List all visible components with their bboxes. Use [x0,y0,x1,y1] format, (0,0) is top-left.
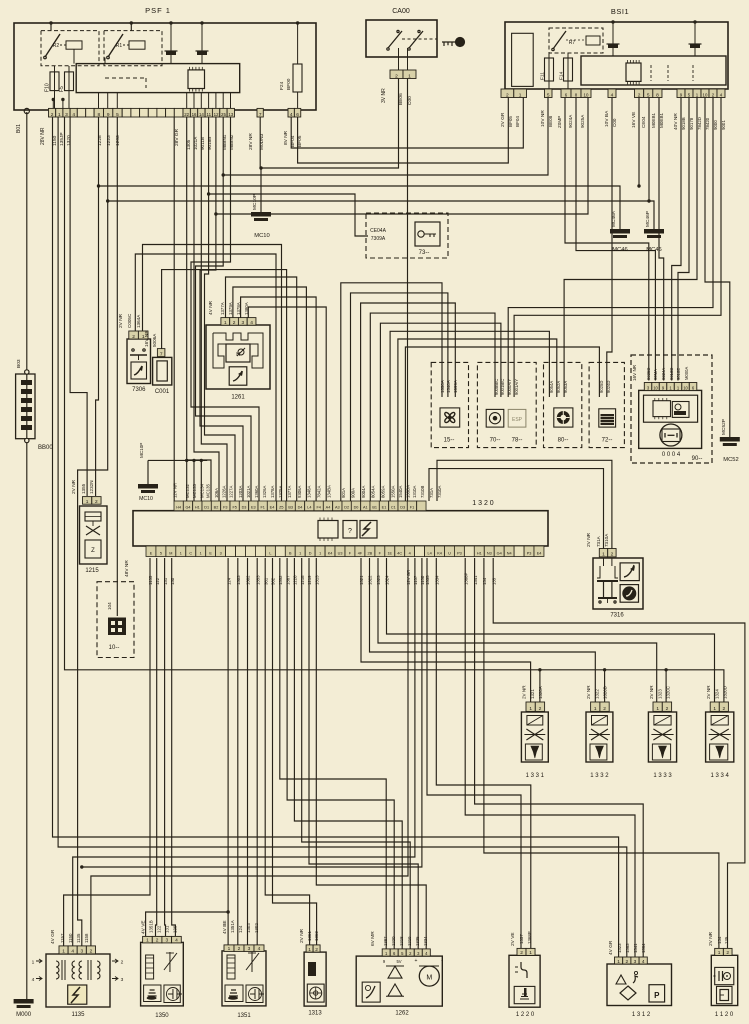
svg-text:D3: D3 [242,506,247,510]
svg-text:9001A/Y: 9001A/Y [514,379,519,395]
svg-text:1322: 1322 [594,689,599,699]
svg-text:1364A: 1364A [136,314,141,328]
svg-text:1368P: 1368P [527,931,532,944]
svg-text:12: 12 [214,112,219,117]
svg-text:134: 134 [482,577,487,585]
svg-text:1355: 1355 [81,483,86,494]
svg-text:2V VE: 2V VE [510,932,516,946]
svg-text:M000: M000 [16,1012,32,1018]
svg-text:1218: 1218 [300,575,305,585]
svg-text:73--: 73-- [419,250,430,256]
svg-text:MC132: MC132 [185,484,190,498]
svg-text:122: 122 [157,925,162,933]
svg-text:ESP: ESP [512,417,523,423]
svg-text:M0DN3: M0DN3 [259,133,265,150]
svg-text:11: 11 [206,112,211,117]
svg-text:1203A: 1203A [238,485,243,498]
svg-text:1550A: 1550A [390,485,395,498]
svg-text:78--: 78-- [512,438,523,444]
svg-text:1361: 1361 [307,931,312,941]
svg-text:901A: 901A [341,488,346,498]
svg-text:P: P [654,991,660,1000]
svg-text:1380A: 1380A [244,302,249,315]
svg-text:N4: N4 [507,552,512,556]
svg-text:9306A: 9306A [297,485,302,498]
svg-text:3: 3 [248,946,251,952]
svg-text:U3: U3 [338,552,343,556]
svg-text:2: 2 [90,949,93,955]
svg-text:2V NR: 2V NR [708,931,714,946]
svg-text:1364: 1364 [641,943,646,953]
svg-text:1335: 1335 [425,575,430,585]
svg-text:7306: 7306 [132,387,146,393]
svg-text:1348A: 1348A [307,485,312,498]
svg-text:1: 1 [519,92,522,98]
svg-text:28V NR: 28V NR [40,127,46,145]
svg-text:9024D: 9024D [606,381,611,393]
svg-text:1: 1 [86,499,89,505]
svg-text:1334: 1334 [423,936,428,946]
svg-text:BSI1: BSI1 [611,7,629,16]
svg-text:1: 1 [62,949,65,955]
svg-text:1220: 1220 [391,936,396,946]
svg-text:MC52P: MC52P [721,419,727,435]
svg-text:C001: C001 [155,389,170,395]
svg-text:2: 2 [603,706,606,712]
svg-text:5006A: 5006A [152,333,157,347]
svg-text:C00: C00 [407,96,413,105]
svg-text:3: 3 [634,959,637,965]
svg-text:1223: 1223 [106,135,112,146]
svg-text:1326A: 1326A [262,485,267,498]
svg-text:2: 2 [233,320,236,326]
svg-text:2: 2 [520,950,523,956]
svg-text:9024A: 9024A [661,368,666,380]
svg-text:4: 4 [611,92,614,98]
svg-text:MC46: MC46 [646,247,661,253]
svg-text:135: 135 [491,577,496,585]
svg-text:16V NR: 16V NR [632,364,637,381]
svg-text:1: 1 [308,947,311,953]
svg-text:1219: 1219 [407,936,412,946]
svg-text:1324: 1324 [715,689,720,699]
svg-text:H4: H4 [176,506,181,510]
svg-text:70--: 70-- [490,438,501,444]
svg-text:10V BA: 10V BA [604,110,610,127]
svg-text:2V NR: 2V NR [586,532,592,547]
svg-text:1313: 1313 [308,1011,322,1017]
svg-text:4F: 4F [358,552,363,556]
svg-text:10V NR: 10V NR [540,110,546,127]
svg-text:9000A/Y: 9000A/Y [507,379,512,395]
svg-text:2: 2 [611,552,614,558]
svg-text:E1: E1 [382,506,387,510]
svg-text:BB00: BB00 [38,445,53,451]
svg-text:1323: 1323 [658,689,663,699]
svg-text:1 1 2 0: 1 1 2 0 [715,1012,734,1018]
svg-text:2: 2 [625,959,628,965]
svg-text:1320: 1320 [66,135,72,146]
svg-text:P3: P3 [527,552,532,556]
svg-text:MC46A: MC46A [611,210,617,227]
svg-text:5: 5 [547,92,550,98]
svg-text:900A: 900A [351,488,356,498]
svg-text:1320D: 1320D [723,686,728,699]
svg-text:PSF 1: PSF 1 [145,6,171,15]
svg-text:MC10: MC10 [139,496,153,502]
svg-text:1157: 1157 [413,575,418,585]
svg-text:1 3 1 2: 1 3 1 2 [632,1012,651,1018]
svg-text:2V NR: 2V NR [706,685,711,699]
svg-text:25: 25 [221,112,226,117]
svg-text:1135: 1135 [148,575,153,585]
svg-text:?: ? [348,528,352,535]
svg-text:9024A: 9024A [568,114,573,128]
svg-text:1599A: 1599A [453,380,458,393]
svg-text:Z: Z [91,548,95,554]
svg-text:6: 6 [296,112,299,118]
svg-text:1303: 1303 [246,923,251,933]
svg-text:1362: 1362 [314,931,319,941]
svg-text:2V NR: 2V NR [649,685,654,699]
svg-text:3: 3 [241,320,244,326]
svg-text:1305: 1305 [186,139,191,150]
svg-text:1321: 1321 [359,575,364,585]
svg-text:1320A: 1320A [538,686,543,699]
svg-text:M000A: M000A [684,367,689,380]
svg-text:1 2 2 0: 1 2 2 0 [516,1012,535,1018]
svg-text:5: 5 [647,92,650,98]
svg-text:C005C: C005C [127,313,132,328]
svg-text:10: 10 [653,385,658,390]
svg-text:1157: 1157 [60,933,65,943]
svg-text:R7: R7 [569,40,576,46]
svg-text:9000: 9000 [713,120,718,130]
svg-text:2: 2 [132,334,135,340]
svg-text:MC46: MC46 [612,247,627,253]
svg-text:D0: D0 [354,506,359,510]
svg-text:134: 134 [717,936,722,944]
svg-text:1: 1 [594,706,597,712]
svg-text:K4: K4 [437,552,442,556]
svg-text:7842A: 7842A [316,485,321,498]
svg-text:4V BE: 4V BE [222,920,228,934]
svg-text:731A: 731A [429,488,434,498]
svg-text:2: 2 [95,499,98,505]
svg-text:E4: E4 [270,506,275,510]
svg-text:BF04: BF04 [290,135,296,147]
svg-text:2: 2 [539,706,542,712]
svg-text:7: 7 [160,351,163,357]
svg-text:1320C: 1320C [666,686,671,699]
svg-text:1302: 1302 [246,575,251,585]
svg-text:7310A: 7310A [604,533,609,547]
svg-text:1135: 1135 [72,1012,86,1018]
svg-text:7309A: 7309A [371,236,386,242]
svg-text:155DA: 155DA [406,485,411,498]
svg-text:C1: C1 [391,506,396,510]
svg-text:1378A: 1378A [270,485,275,498]
svg-text:1352: 1352 [278,575,283,585]
svg-text:1350: 1350 [155,1013,169,1019]
svg-text:9001B/C: 9001B/C [500,379,505,395]
svg-text:8059A: 8059A [381,485,386,498]
svg-text:104: 104 [107,602,112,610]
svg-text:+: + [415,958,418,964]
svg-text:48V NR: 48V NR [124,560,130,577]
svg-text:MC134: MC134 [200,484,205,498]
svg-text:E3: E3 [251,506,256,510]
svg-text:1334: 1334 [435,575,440,585]
svg-text:2: 2 [238,946,241,952]
svg-text:4: 4 [290,112,293,118]
svg-text:1: 1 [529,950,532,956]
svg-text:1: 1 [299,552,301,556]
svg-text:1353: 1353 [255,575,260,585]
svg-text:D2: D2 [344,506,349,510]
svg-text:BF05: BF05 [297,135,303,147]
svg-text:1021A: 1021A [193,136,198,150]
svg-text:1: 1 [319,552,321,556]
svg-text:1387: 1387 [383,936,388,946]
svg-text:1150: 1150 [52,135,58,146]
svg-text:R2: R2 [53,43,60,49]
svg-text:1320B: 1320B [602,686,607,699]
svg-text:D1: D1 [204,506,209,510]
svg-text:1: 1 [32,960,35,966]
svg-text:3: 3 [65,112,68,118]
svg-text:1220: 1220 [293,575,298,585]
svg-text:8: 8 [656,92,659,98]
svg-text:2: 2 [506,92,509,98]
svg-text:28V GR: 28V GR [174,128,180,146]
svg-text:1324: 1324 [385,575,390,585]
svg-text:1357: 1357 [519,934,524,944]
svg-text:1: 1 [200,552,202,556]
svg-text:1323: 1323 [376,575,381,585]
svg-text:1540A: 1540A [446,380,451,393]
svg-text:1021A: 1021A [246,485,251,498]
svg-text:16: 16 [192,112,197,117]
svg-text:BF05: BF05 [508,116,513,127]
svg-text:B01: B01 [16,124,22,133]
svg-text:1227A: 1227A [229,485,234,498]
svg-text:4: 4 [258,946,261,952]
svg-text:22: 22 [184,112,189,117]
svg-text:4V NR: 4V NR [208,300,214,315]
svg-text:2: 2 [666,706,669,712]
svg-text:1377A: 1377A [220,302,225,315]
svg-text:CE04A: CE04A [370,228,387,234]
svg-text:1351: 1351 [237,1013,251,1019]
svg-text:Z5: Z5 [279,506,283,510]
svg-text:1158: 1158 [84,933,89,943]
svg-text:5: 5 [116,112,119,118]
svg-text:2V GR: 2V GR [500,112,506,127]
svg-text:3: 3 [80,949,83,955]
svg-text:1341: 1341 [633,943,638,953]
svg-text:CA00: CA00 [392,8,410,15]
svg-text:1218: 1218 [399,936,404,946]
svg-text:90--: 90-- [692,456,703,462]
svg-text:A1: A1 [363,506,368,510]
svg-text:9011B: 9011B [200,137,205,150]
svg-text:134BA: 134BA [326,485,331,498]
svg-text:1540A: 1540A [398,485,403,498]
svg-text:1232N: 1232N [89,480,94,494]
svg-text:1261: 1261 [231,395,245,401]
svg-text:1 3 3 3: 1 3 3 3 [653,773,672,779]
svg-text:80--: 80-- [558,438,569,444]
svg-text:4V VE: 4V VE [141,920,147,934]
svg-text:1360A: 1360A [254,485,259,498]
svg-text:1215: 1215 [85,568,99,574]
svg-text:1377A: 1377A [287,485,292,498]
svg-text:9052A: 9052A [556,381,561,393]
svg-text:4C: 4C [397,552,402,556]
svg-text:1: 1 [602,552,605,558]
svg-text:1351A: 1351A [230,920,235,933]
svg-text:B03: B03 [16,359,22,368]
svg-text:M8BN1: M8BN1 [222,134,227,150]
svg-text:1 3 3 1: 1 3 3 1 [526,773,545,779]
svg-text:14: 14 [199,112,204,117]
svg-text:K4: K4 [328,552,333,556]
svg-text:2V NR: 2V NR [521,685,526,699]
svg-text:124: 124 [226,577,231,585]
svg-text:L: L [269,552,271,556]
svg-text:9025A: 9025A [580,114,585,128]
svg-text:4: 4 [175,938,178,944]
svg-text:MC10P: MC10P [139,443,144,458]
svg-text:5V: 5V [396,959,401,964]
svg-text:MC46P: MC46P [645,211,651,227]
svg-text:1: 1 [58,112,61,118]
svg-text:MC135: MC135 [205,484,210,498]
svg-text:M: M [169,552,172,556]
svg-text:1: 1 [146,938,149,944]
svg-text:9004A: 9004A [361,485,366,498]
svg-text:B1: B1 [372,506,377,510]
svg-text:362: 362 [271,577,276,585]
svg-text:9025D: 9025D [646,368,651,380]
svg-text:C00: C00 [612,118,617,127]
svg-text:1: 1 [718,950,721,956]
svg-text:F5: F5 [232,506,236,510]
svg-text:4: 4 [71,949,74,955]
svg-text:1262: 1262 [395,1011,409,1017]
svg-text:BE06: BE06 [398,93,404,105]
svg-text:0 0 0 4: 0 0 0 4 [662,452,681,458]
svg-text:1: 1 [228,946,231,952]
svg-text:A3: A3 [335,506,340,510]
svg-text:731A: 731A [596,535,601,547]
svg-text:B: B [289,552,292,556]
svg-text:1363: 1363 [625,943,630,953]
svg-text:R1: R1 [116,43,123,49]
svg-text:7310B: 7310B [420,485,425,498]
svg-text:F5: F5 [59,86,65,92]
svg-text:2: 2 [51,112,54,118]
svg-text:P3: P3 [457,552,462,556]
svg-text:1: 1 [529,706,532,712]
svg-text:1341: 1341 [473,575,478,585]
svg-text:1: 1 [224,320,227,326]
svg-text:1E: 1E [387,552,392,556]
svg-text:F4: F4 [316,506,320,510]
svg-text:1228: 1228 [97,135,103,146]
svg-text:5: 5 [160,552,162,556]
svg-text:2: 2 [726,950,729,956]
svg-text:1303: 1303 [236,575,241,585]
svg-text:8V NR: 8V NR [283,130,289,145]
svg-text:D: D [309,552,312,556]
svg-text:1368P: 1368P [463,572,468,585]
svg-text:BF00: BF00 [286,78,292,90]
svg-text:135: 135 [724,936,729,944]
svg-text:10--: 10-- [109,645,120,651]
svg-text:4: 4 [642,959,645,965]
svg-text:MC10P: MC10P [252,194,258,210]
svg-text:4: 4 [32,977,35,983]
svg-text:F1: F1 [260,506,264,510]
svg-text:F14: F14 [559,71,565,80]
svg-text:8: 8 [97,112,100,118]
svg-text:9018E: 9018E [676,368,681,380]
svg-text:122: 122 [155,577,160,585]
svg-text:130: 130 [173,925,178,933]
svg-text:4: 4 [72,112,75,118]
svg-text:E: E [209,552,212,556]
svg-text:2V NR: 2V NR [71,479,77,494]
svg-text:7: 7 [259,112,262,118]
svg-text:H1: H1 [477,552,482,556]
svg-text:L4: L4 [427,552,431,556]
svg-text:4: 4 [409,552,411,556]
svg-text:10: 10 [584,92,589,97]
svg-text:G4: G4 [185,506,190,510]
svg-text:4V GR: 4V GR [50,929,56,944]
svg-text:1323: 1323 [617,943,622,953]
svg-text:1367: 1367 [285,575,290,585]
svg-text:2: 2 [315,947,318,953]
svg-text:U: U [448,552,451,556]
svg-text:10: 10 [683,385,688,390]
svg-text:90178: 90178 [689,117,694,130]
svg-text:1: 1 [408,73,411,79]
svg-text:3: 3 [165,938,168,944]
svg-text:B3: B3 [288,506,293,510]
svg-text:D4: D4 [298,506,303,510]
svg-text:2V NR: 2V NR [118,313,124,328]
svg-text:131: 131 [165,925,170,933]
svg-text:1302: 1302 [254,923,259,933]
svg-text:MC10: MC10 [254,233,269,239]
svg-text:2V NR: 2V NR [586,685,591,699]
svg-text:1203: 1203 [115,135,121,146]
svg-text:4: 4 [250,320,253,326]
svg-text:F10: F10 [45,83,51,92]
svg-text:10: 10 [703,92,708,97]
svg-text:F3: F3 [223,506,227,510]
svg-text:1322: 1322 [368,575,373,585]
svg-text:B2: B2 [214,506,219,510]
svg-text:7842D: 7842D [697,117,702,130]
svg-text:H1: H1 [195,506,200,510]
svg-text:F24: F24 [279,81,285,90]
svg-text:3: 3 [220,552,222,556]
svg-text:1351B: 1351B [149,920,154,933]
